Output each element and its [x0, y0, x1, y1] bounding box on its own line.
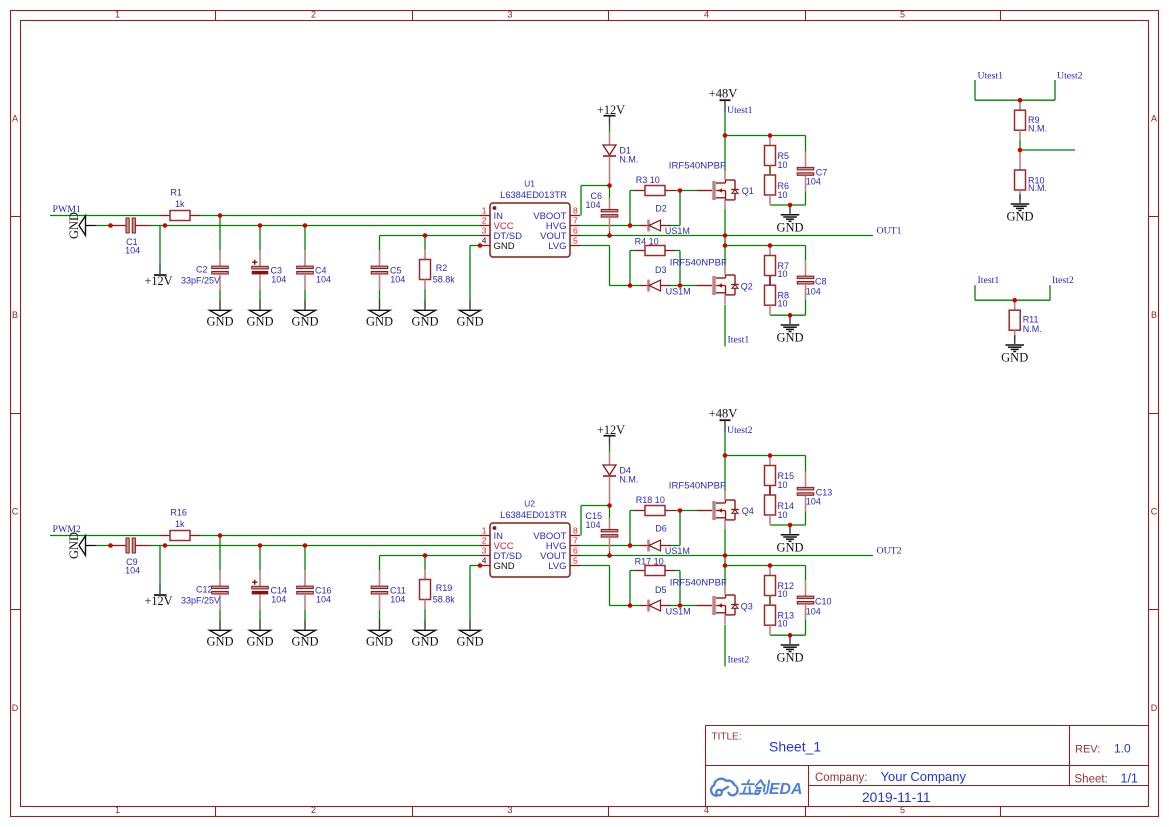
svg-text:Utest2: Utest2 — [1057, 71, 1083, 82]
svg-text:D: D — [1151, 703, 1158, 713]
svg-text:C8: C8 — [815, 277, 827, 287]
svg-text:GND: GND — [206, 315, 233, 329]
svg-text:1k: 1k — [175, 199, 185, 209]
svg-text:GND: GND — [494, 241, 515, 252]
svg-text:GND: GND — [1006, 210, 1033, 224]
svg-text:GND: GND — [776, 331, 803, 345]
svg-text:3: 3 — [482, 546, 487, 556]
svg-text:1: 1 — [115, 805, 120, 815]
svg-text:+12V: +12V — [144, 274, 172, 288]
svg-text:1k: 1k — [175, 519, 185, 529]
svg-text:1: 1 — [115, 10, 120, 20]
svg-text:104: 104 — [806, 176, 821, 186]
svg-text:Sheet:: Sheet: — [1075, 774, 1108, 786]
svg-text:EDA: EDA — [769, 781, 802, 798]
svg-text:104: 104 — [390, 275, 405, 285]
svg-text:GND: GND — [411, 635, 438, 649]
svg-text:5: 5 — [573, 236, 578, 246]
svg-text:C: C — [1151, 506, 1158, 516]
svg-text:C12: C12 — [196, 584, 213, 594]
svg-text:Itest2: Itest2 — [728, 655, 750, 666]
svg-text:6: 6 — [573, 226, 578, 236]
svg-text:10: 10 — [778, 160, 788, 170]
svg-text:4: 4 — [482, 236, 487, 246]
svg-text:D: D — [12, 703, 19, 713]
svg-text:8: 8 — [573, 206, 578, 216]
svg-text:OUT1: OUT1 — [877, 226, 902, 237]
svg-text:+48V: +48V — [709, 86, 738, 100]
svg-text:Q1: Q1 — [742, 186, 754, 196]
svg-text:R19: R19 — [436, 583, 453, 593]
svg-text:104: 104 — [390, 595, 405, 605]
svg-text:N.M.: N.M. — [1028, 183, 1047, 193]
svg-text:U2: U2 — [524, 498, 535, 508]
svg-text:2: 2 — [482, 536, 487, 546]
svg-text:Sheet_1: Sheet_1 — [769, 739, 821, 755]
svg-text:GND: GND — [291, 315, 318, 329]
svg-text:3: 3 — [507, 805, 512, 815]
svg-text:L6384ED013TR: L6384ED013TR — [500, 510, 567, 520]
svg-text:N.M.: N.M. — [619, 155, 638, 165]
svg-text:104: 104 — [806, 286, 821, 296]
svg-text:GND: GND — [246, 315, 273, 329]
svg-text:+12V: +12V — [597, 103, 625, 117]
svg-text:Itest1: Itest1 — [978, 275, 1000, 286]
svg-text:3: 3 — [482, 226, 487, 236]
svg-text:OUT2: OUT2 — [877, 546, 902, 557]
svg-text:GND: GND — [291, 635, 318, 649]
svg-text:TITLE:: TITLE: — [712, 732, 742, 743]
svg-text:GND: GND — [776, 651, 803, 665]
svg-text:+12V: +12V — [144, 594, 172, 608]
svg-text:10: 10 — [778, 589, 788, 599]
svg-text:GND: GND — [456, 635, 483, 649]
svg-text:+48V: +48V — [709, 406, 738, 420]
svg-text:104: 104 — [316, 595, 331, 605]
svg-text:Utest1: Utest1 — [978, 71, 1004, 82]
svg-text:GND: GND — [776, 220, 803, 234]
svg-text:A: A — [1151, 113, 1157, 123]
svg-text:C: C — [12, 506, 19, 516]
svg-text:R11: R11 — [1023, 315, 1039, 325]
svg-text:GND: GND — [494, 561, 515, 572]
svg-text:7: 7 — [573, 216, 578, 226]
svg-text:Q4: Q4 — [742, 506, 754, 516]
svg-text:R2: R2 — [436, 263, 448, 273]
svg-text:2019-11-11: 2019-11-11 — [862, 790, 931, 805]
svg-text:104: 104 — [585, 520, 600, 530]
svg-text:2: 2 — [311, 10, 316, 20]
svg-text:C10: C10 — [815, 597, 832, 607]
svg-text:IRF540NPBF: IRF540NPBF — [669, 161, 726, 172]
svg-text:33pF/25V: 33pF/25V — [181, 276, 220, 286]
svg-text:104: 104 — [271, 275, 286, 285]
svg-text:GND: GND — [206, 635, 233, 649]
svg-text:3: 3 — [507, 10, 512, 20]
svg-text:R1: R1 — [170, 188, 182, 198]
svg-text:58.8k: 58.8k — [433, 595, 456, 605]
svg-text:GND: GND — [366, 315, 393, 329]
svg-text:1: 1 — [482, 206, 487, 216]
svg-text:US1M: US1M — [666, 286, 691, 296]
svg-text:4: 4 — [704, 805, 709, 815]
svg-text:Q3: Q3 — [741, 601, 753, 611]
svg-text:PWM1: PWM1 — [53, 204, 81, 215]
svg-text:33pF/25V: 33pF/25V — [181, 596, 220, 606]
svg-text:L6384ED013TR: L6384ED013TR — [500, 190, 567, 200]
svg-text:2: 2 — [482, 216, 487, 226]
svg-text:1/1: 1/1 — [1121, 771, 1138, 785]
svg-text:LVG: LVG — [548, 241, 566, 252]
svg-text:IRF540NPBF: IRF540NPBF — [670, 577, 727, 588]
svg-text:2: 2 — [311, 805, 316, 815]
svg-text:104: 104 — [125, 245, 140, 255]
svg-text:B: B — [12, 310, 18, 320]
svg-text:C2: C2 — [196, 264, 208, 274]
svg-text:10: 10 — [778, 480, 788, 490]
svg-text:GND: GND — [366, 635, 393, 649]
svg-text:D3: D3 — [655, 265, 667, 275]
svg-text:U1: U1 — [524, 178, 535, 188]
svg-text:REV:: REV: — [1075, 744, 1100, 756]
svg-text:N.M.: N.M. — [1028, 123, 1047, 133]
svg-text:R4 10: R4 10 — [635, 236, 659, 246]
svg-text:10: 10 — [778, 299, 788, 309]
svg-text:104: 104 — [316, 275, 331, 285]
svg-text:N.M.: N.M. — [619, 475, 638, 485]
svg-text:A: A — [12, 113, 18, 123]
svg-text:5: 5 — [900, 805, 905, 815]
svg-text:IRF540NPBF: IRF540NPBF — [669, 481, 726, 492]
svg-text:D6: D6 — [655, 524, 667, 534]
svg-text:4: 4 — [704, 10, 709, 20]
svg-text:GND: GND — [1001, 351, 1028, 365]
svg-text:Utest2: Utest2 — [727, 425, 753, 436]
svg-text:IRF540NPBF: IRF540NPBF — [670, 257, 727, 268]
svg-text:GND: GND — [246, 635, 273, 649]
svg-text:Company:: Company: — [815, 772, 867, 784]
svg-text:GND: GND — [67, 532, 81, 559]
svg-text:104: 104 — [806, 496, 821, 506]
svg-text:104: 104 — [125, 565, 140, 575]
svg-text:D2: D2 — [655, 204, 667, 214]
svg-text:Itest1: Itest1 — [728, 335, 750, 346]
svg-text:Utest1: Utest1 — [727, 105, 753, 116]
svg-text:GND: GND — [67, 212, 81, 239]
svg-text:10: 10 — [778, 619, 788, 629]
svg-text:8: 8 — [573, 526, 578, 536]
svg-text:1.0: 1.0 — [1114, 742, 1131, 756]
svg-text:GND: GND — [456, 315, 483, 329]
svg-text:5: 5 — [573, 556, 578, 566]
svg-text:R17 10: R17 10 — [635, 556, 664, 566]
svg-text:4: 4 — [482, 556, 487, 566]
svg-text:R3 10: R3 10 — [636, 175, 660, 185]
svg-text:R16: R16 — [170, 508, 187, 518]
svg-text:B: B — [1151, 310, 1157, 320]
svg-text:LVG: LVG — [548, 561, 566, 572]
svg-text:R18 10: R18 10 — [636, 495, 665, 505]
svg-text:N.M.: N.M. — [1023, 324, 1042, 334]
svg-text:10: 10 — [778, 269, 788, 279]
svg-text:6: 6 — [573, 546, 578, 556]
svg-text:PWM2: PWM2 — [53, 524, 81, 535]
svg-text:104: 104 — [271, 595, 286, 605]
svg-text:104: 104 — [806, 606, 821, 616]
svg-text:GND: GND — [776, 540, 803, 554]
svg-text:1: 1 — [482, 526, 487, 536]
svg-text:US1M: US1M — [666, 606, 691, 616]
svg-text:10: 10 — [778, 190, 788, 200]
svg-text:Your Company: Your Company — [881, 769, 967, 784]
svg-text:D5: D5 — [655, 585, 667, 595]
svg-text:US1M: US1M — [665, 226, 690, 236]
svg-text:5: 5 — [900, 10, 905, 20]
svg-text:GND: GND — [411, 315, 438, 329]
svg-text:Itest2: Itest2 — [1052, 275, 1074, 286]
svg-text:Q2: Q2 — [741, 281, 753, 291]
svg-text:US1M: US1M — [665, 546, 690, 556]
svg-text:7: 7 — [573, 536, 578, 546]
svg-text:10: 10 — [778, 510, 788, 520]
svg-text:58.8k: 58.8k — [433, 275, 456, 285]
svg-text:104: 104 — [585, 200, 600, 210]
svg-text:+12V: +12V — [597, 423, 625, 437]
